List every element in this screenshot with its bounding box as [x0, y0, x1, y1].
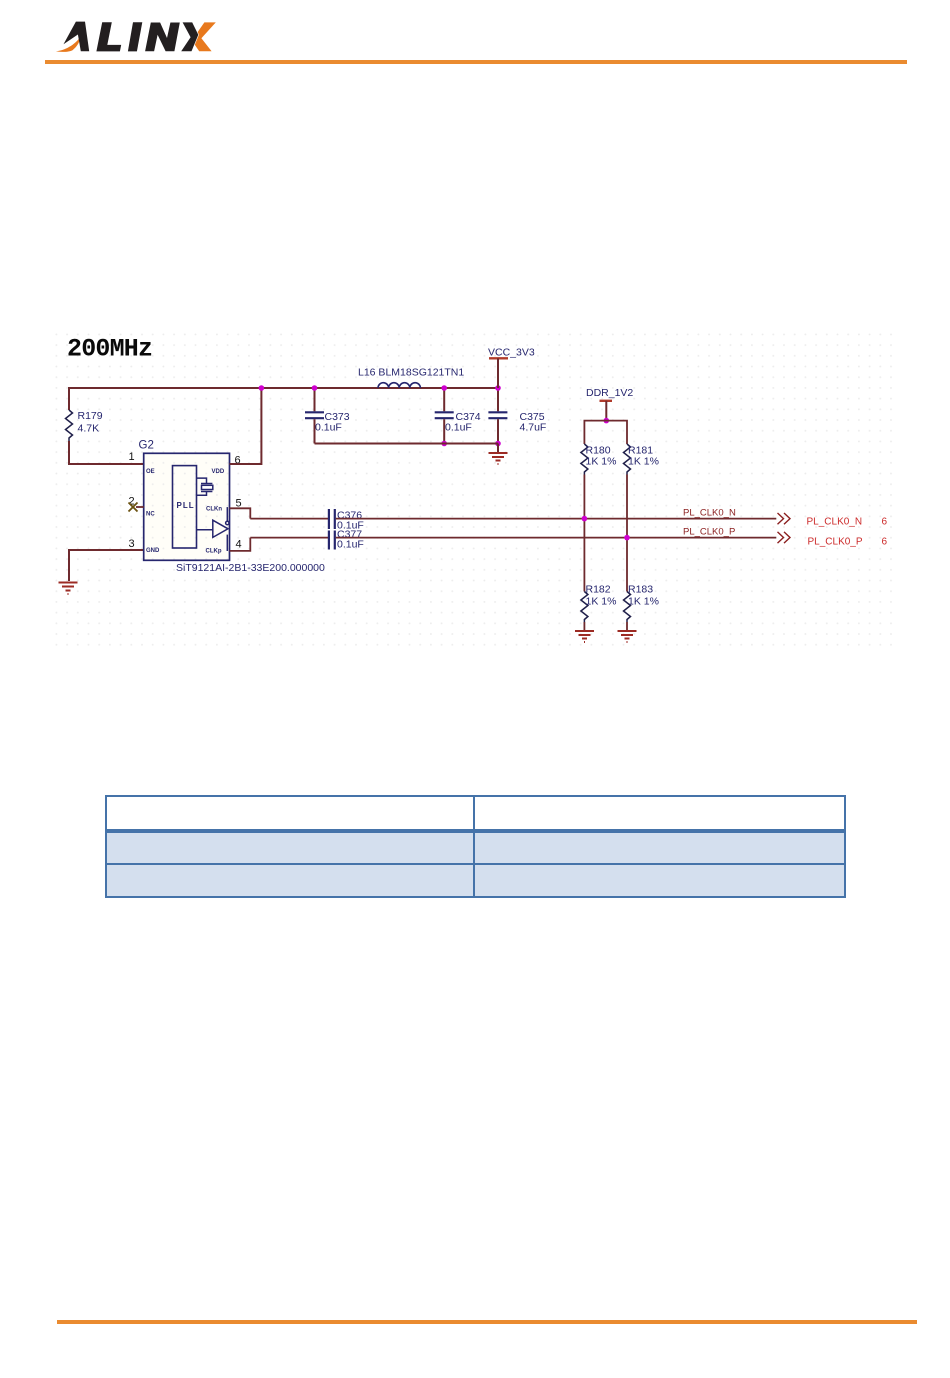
table: [105, 795, 846, 898]
wire top rail: [69, 387, 498, 389]
svg-text:4.7uF: 4.7uF: [520, 422, 547, 434]
letter X black stroke: [181, 22, 198, 51]
capacitor C375: [488, 388, 546, 444]
svg-text:NC: NC: [146, 512, 155, 518]
resistor R180: [581, 444, 588, 475]
wire R183 to ground: [626, 622, 628, 630]
svg-text:R183: R183: [628, 584, 653, 596]
junction C373/rail: [312, 385, 318, 391]
wire tee to R180/R181: [584, 421, 627, 444]
off-page reference texts: [807, 517, 888, 548]
svg-text:1K 1%: 1K 1%: [586, 456, 617, 468]
capacitor C374: [435, 388, 481, 444]
svg-text:3: 3: [129, 538, 135, 550]
svg-text:G2: G2: [139, 440, 154, 452]
component G2 body fill: [144, 453, 230, 560]
svg-text:0.1uF: 0.1uF: [337, 538, 364, 550]
svg-text:PLL: PLL: [177, 501, 195, 510]
schematic: [0, 320, 950, 660]
wire R180 down through N to R182: [583, 475, 585, 592]
crystal symbol: [197, 478, 213, 495]
svg-text:VCC_3V3: VCC_3V3: [488, 347, 535, 359]
capacitor C377: [329, 529, 364, 551]
svg-text:1K 1%: 1K 1%: [586, 596, 617, 608]
junction C374/bottom rail: [441, 441, 447, 447]
junction R180/N: [582, 516, 588, 522]
capacitor C373: [305, 388, 350, 444]
svg-text:4.7K: 4.7K: [78, 423, 100, 435]
letter I: [128, 22, 142, 51]
pin numbers: [129, 451, 242, 551]
svg-text:1: 1: [129, 451, 135, 463]
resistor R183: [624, 592, 631, 623]
resistor R182: [581, 592, 588, 623]
letter X orange stroke: [192, 22, 216, 51]
svg-text:OE: OE: [146, 469, 155, 475]
ground under R182: [575, 631, 594, 642]
letter A: [64, 22, 90, 52]
wire bottom rail: [315, 443, 499, 445]
svg-text:GND: GND: [146, 548, 160, 554]
svg-text:1K 1%: 1K 1%: [628, 596, 659, 608]
pin name labels: [146, 469, 225, 555]
letter L: [96, 22, 121, 51]
wire pin5 to N line: [230, 508, 251, 518]
svg-text:R179: R179: [78, 410, 103, 422]
wire pin4 to P line: [230, 538, 251, 551]
header orange rule: [45, 60, 907, 64]
svg-text:1K 1%: 1K 1%: [628, 456, 659, 468]
wire R181 down through P to R183: [626, 475, 628, 592]
wire R182 to ground: [583, 622, 585, 630]
wire R179 to pin1 row: [69, 441, 144, 464]
wire pin6 up to rail: [230, 387, 262, 464]
wire P line right of C377: [336, 537, 777, 539]
svg-text:PL_CLK0_P: PL_CLK0_P: [808, 537, 863, 548]
port chevron N: [778, 513, 791, 524]
svg-text:R182: R182: [586, 584, 611, 596]
svg-text:SiT9121AI-2B1-33E200.000000: SiT9121AI-2B1-33E200.000000: [176, 562, 325, 574]
svg-text:CLKp: CLKp: [206, 549, 222, 555]
svg-text:0.1uF: 0.1uF: [315, 422, 342, 434]
junction C375/bottom rail: [495, 441, 501, 447]
svg-text:4: 4: [236, 539, 242, 551]
orange swoosh of A: [56, 36, 81, 52]
ground (left): [59, 583, 78, 595]
junction R181/P: [624, 535, 630, 541]
wire pin3 row and ground drop: [69, 550, 144, 581]
wire P line left of C377: [250, 537, 328, 539]
svg-text:0.1uF: 0.1uF: [445, 422, 472, 434]
svg-text:200MHz: 200MHz: [67, 335, 152, 364]
op G2 oscillator box: [144, 453, 230, 560]
svg-text:DDR_1V2: DDR_1V2: [586, 387, 633, 399]
resistor R179: [66, 410, 73, 441]
ground under C375: [497, 444, 499, 453]
svg-text:PL_CLK0_N: PL_CLK0_N: [807, 517, 863, 528]
svg-text:PL_CLK0_N: PL_CLK0_N: [683, 508, 736, 519]
inductor L16: [378, 383, 420, 388]
junction pin6/rail: [259, 385, 265, 391]
buffer triangle: [197, 507, 229, 551]
svg-text:L16 BLM18SG121TN1: L16 BLM18SG121TN1: [358, 367, 464, 379]
ground under R183: [618, 631, 637, 642]
junction VCC/rail: [495, 385, 501, 391]
port chevron P: [778, 532, 791, 543]
svg-text:6: 6: [882, 517, 888, 528]
junction DDR_1V2 tee: [604, 418, 610, 424]
svg-text:VDD: VDD: [212, 469, 225, 475]
svg-text:PL_CLK0_P: PL_CLK0_P: [683, 527, 735, 538]
PLL sub-block: [173, 466, 197, 548]
wire N line left of C376: [250, 518, 328, 520]
junction C374/rail: [441, 385, 447, 391]
wire left drop to R179: [68, 387, 70, 410]
letter N: [145, 23, 180, 52]
ALINX logo: [0, 0, 300, 70]
svg-text:CLKn: CLKn: [206, 507, 222, 513]
capacitor C376: [329, 509, 364, 532]
resistor R181: [624, 444, 631, 475]
no-connect X on pin 2: [129, 503, 144, 512]
wire N line right of C376: [336, 518, 777, 520]
footer orange rule: [57, 1320, 917, 1325]
svg-text:6: 6: [882, 537, 888, 548]
